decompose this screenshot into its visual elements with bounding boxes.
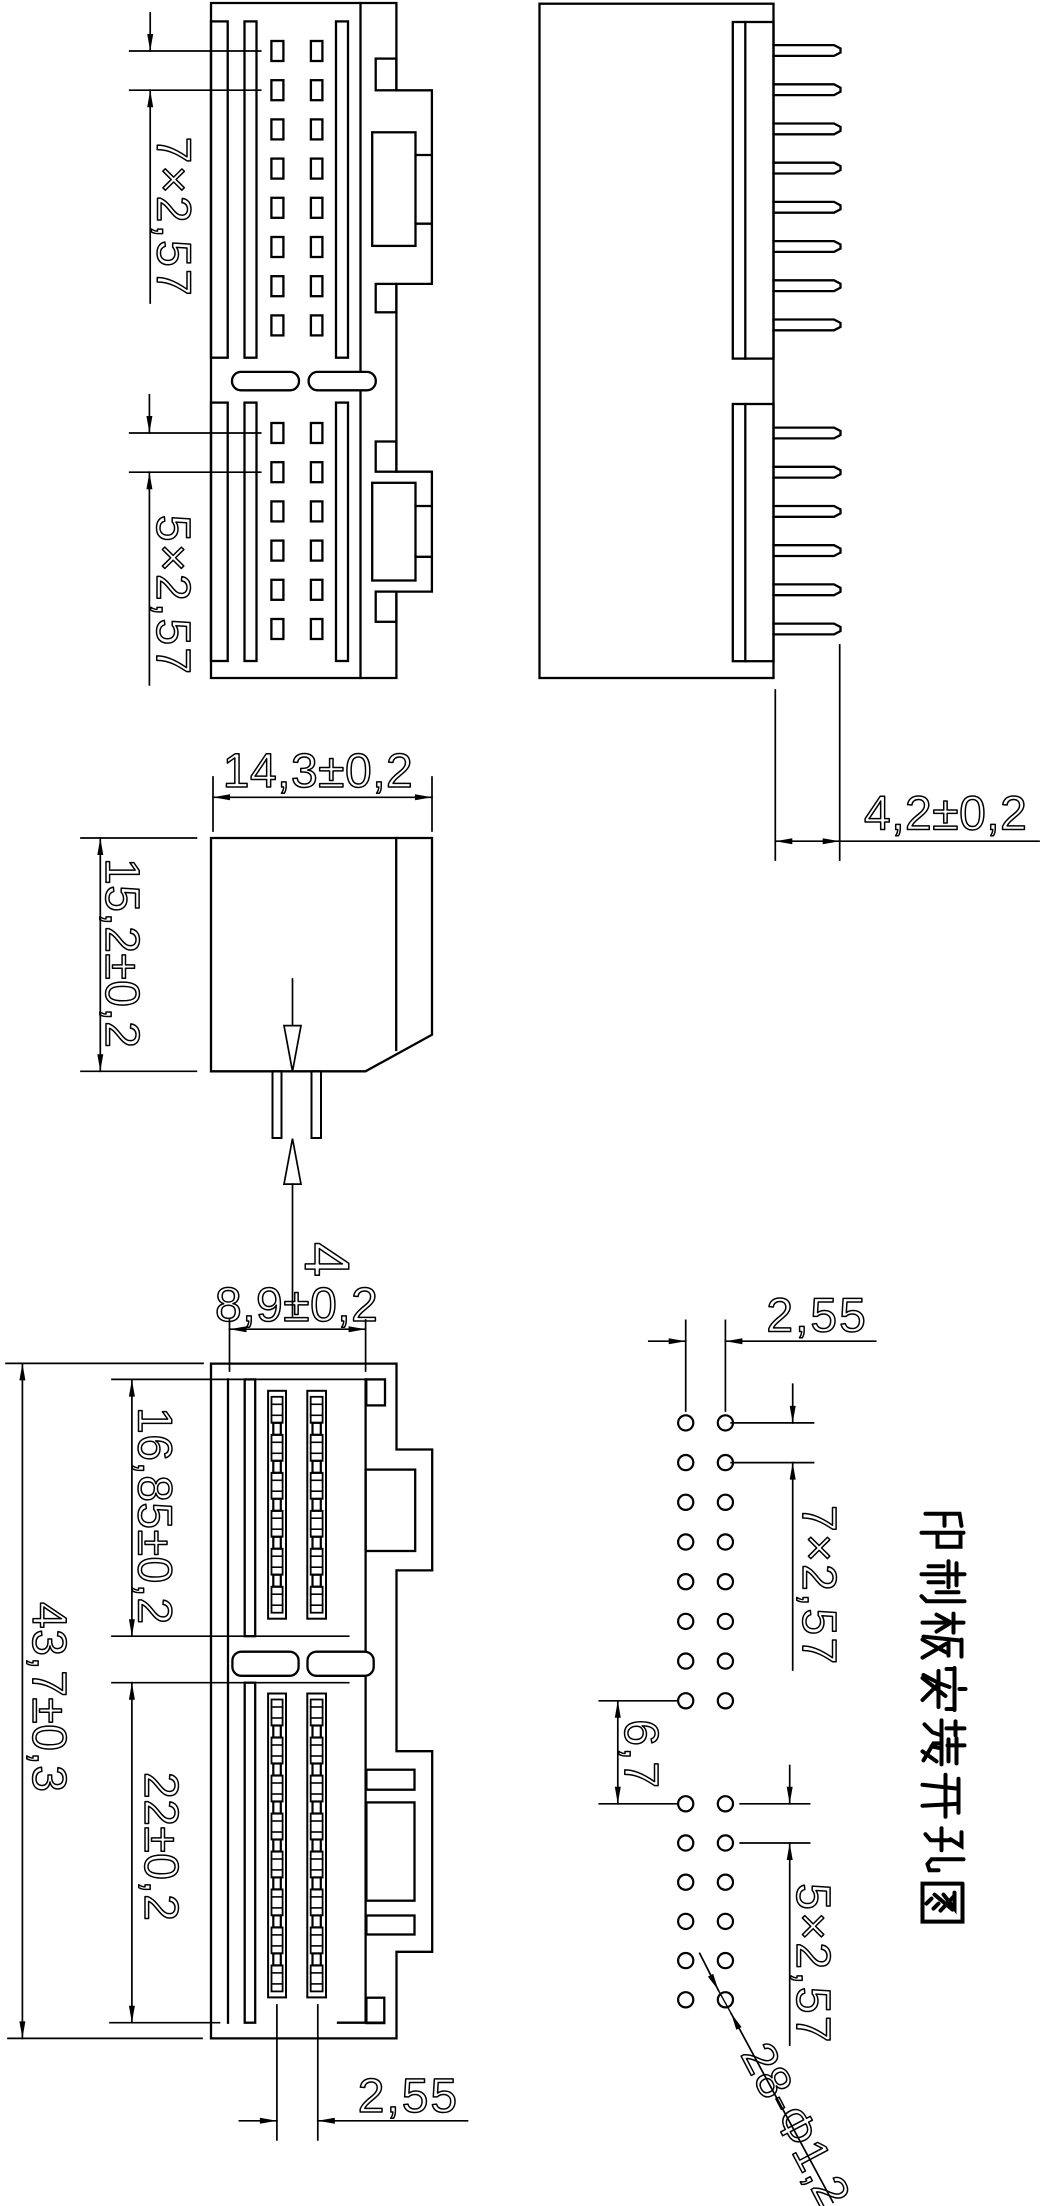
svg-text:8,9±0,2: 8,9±0,2 xyxy=(215,1279,378,1332)
svg-text:7×2,57: 7×2,57 xyxy=(147,137,200,298)
svg-text:2,55: 2,55 xyxy=(358,2070,459,2123)
svg-text:4: 4 xyxy=(291,1242,361,1278)
svg-text:4,2±0,2: 4,2±0,2 xyxy=(864,788,1027,841)
svg-text:5×2,57: 5×2,57 xyxy=(786,1883,839,2044)
svg-text:7×2,57: 7×2,57 xyxy=(792,1505,845,1666)
svg-text:2,55: 2,55 xyxy=(766,1290,867,1343)
svg-text:5×2,57: 5×2,57 xyxy=(146,515,199,676)
svg-text:28-Φ1,2: 28-Φ1,2 xyxy=(730,2034,860,2206)
svg-text:43,7±0,3: 43,7±0,3 xyxy=(22,1602,75,1793)
svg-text:22±0,2: 22±0,2 xyxy=(134,1772,187,1921)
svg-text:6,7: 6,7 xyxy=(614,1719,667,1789)
svg-text:14,3±0,2: 14,3±0,2 xyxy=(223,745,414,798)
svg-text:15,2±0,2: 15,2±0,2 xyxy=(95,858,148,1049)
svg-text:16,85±0,2: 16,85±0,2 xyxy=(128,1407,181,1625)
